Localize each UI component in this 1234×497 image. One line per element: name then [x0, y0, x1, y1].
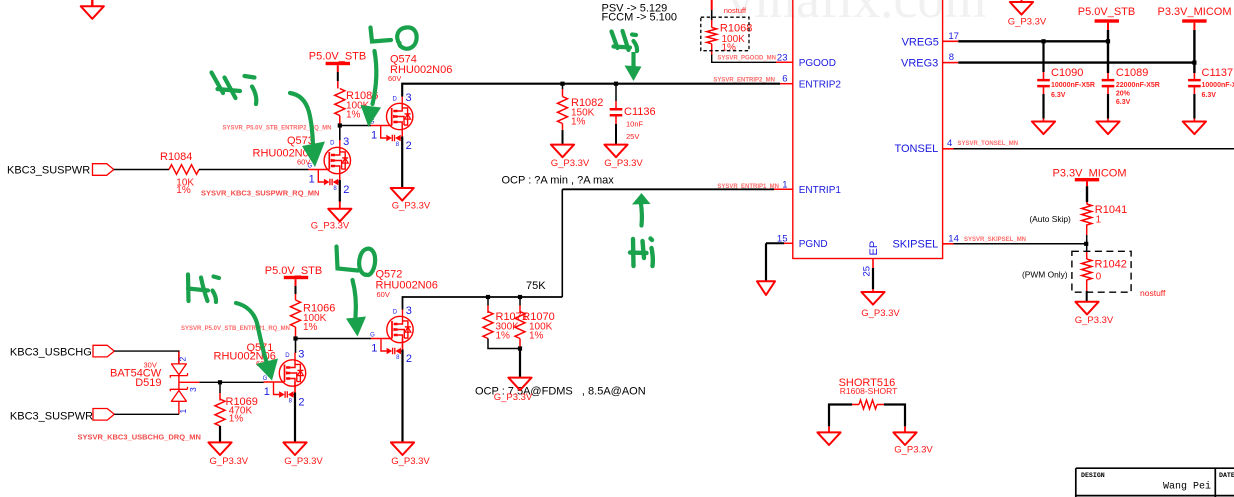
svg-text:4: 4	[947, 138, 952, 149]
wire Q573 source to ground	[339, 180, 341, 202]
svg-text:P5.0V_STB: P5.0V_STB	[309, 50, 366, 62]
wire R1068 to PGOOD pin	[712, 55, 793, 63]
annotation LO (bottom)	[337, 247, 376, 276]
svg-text:25: 25	[862, 266, 873, 277]
node R1086/Q573 drain/Q574 gate	[338, 123, 342, 127]
svg-text:C1137: C1137	[1202, 67, 1234, 79]
svg-text:R1084: R1084	[160, 151, 192, 163]
ground G_P3.3V (R1082)	[551, 145, 590, 169]
svg-text:6.3V: 6.3V	[1116, 99, 1131, 106]
transistor Q572	[370, 268, 438, 365]
svg-text:P5.0V_STB: P5.0V_STB	[1078, 6, 1135, 18]
svg-text:R1608-SHORT: R1608-SHORT	[840, 386, 897, 396]
transistor Q571	[214, 342, 306, 409]
svg-text:SYSVR_P5.0V_STB_ENTRIP1_RQ_MN: SYSVR_P5.0V_STB_ENTRIP1_RQ_MN	[181, 326, 290, 332]
svg-text:0: 0	[1096, 271, 1102, 282]
annotation arrow up to ENTRIP1	[632, 193, 651, 226]
node R1070 tap	[518, 295, 522, 299]
node R1071/R1070 bottoms	[518, 346, 522, 350]
ground (PGND)	[757, 281, 775, 295]
ground (C1089)	[1096, 122, 1119, 135]
IC U-main box	[793, 0, 943, 259]
wire D519 common to gate node	[199, 381, 263, 383]
svg-text:DATE: DATE	[1219, 472, 1234, 479]
annotation arrow LO to Q574 gate	[361, 51, 382, 127]
svg-text:G_P3.3V: G_P3.3V	[551, 158, 590, 169]
dashed box R1068	[701, 17, 749, 51]
ground G_P3.3V (EP)	[861, 292, 900, 319]
svg-text:75K: 75K	[526, 280, 546, 292]
annotation Hi (below ENTRIP1)	[630, 239, 653, 267]
svg-text:DESIGN: DESIGN	[1081, 472, 1105, 479]
node R1066/Q571 drain/Q572 gate	[293, 336, 297, 340]
title block	[1076, 468, 1234, 497]
annotation arrow to Q571 gate	[236, 303, 278, 381]
svg-text:1: 1	[178, 409, 188, 414]
svg-text:6.3V: 6.3V	[1051, 92, 1066, 99]
node P5.0V_STB/VREG5	[1106, 39, 1110, 43]
ground G_P3.3V (top right)	[1008, 0, 1047, 28]
ground (C1090)	[1032, 122, 1055, 135]
svg-text:SYSVR_ENTRIP1_MN: SYSVR_ENTRIP1_MN	[717, 184, 779, 190]
node R1082 tap	[560, 82, 564, 86]
svg-text:17: 17	[948, 31, 959, 42]
svg-text:G_P3.3V: G_P3.3V	[1008, 17, 1047, 28]
svg-text:SYSVR_PGOOD_MN: SYSVR_PGOOD_MN	[717, 56, 776, 62]
wire ENTRIP1 corner down	[561, 189, 563, 297]
ground G_P3.3V (C1136)	[604, 145, 643, 169]
wire Q571 source to ground	[294, 393, 296, 443]
transistor Q574	[370, 54, 453, 152]
svg-text:6: 6	[782, 73, 787, 84]
svg-text:2: 2	[178, 357, 188, 362]
svg-text:KBC3_SUSPWR: KBC3_SUSPWR	[7, 164, 90, 176]
wire EP to ground	[872, 259, 874, 293]
svg-text:(PWM Only): (PWM Only)	[1022, 269, 1068, 279]
svg-text:P3.3V_MICOM: P3.3V_MICOM	[1158, 6, 1232, 18]
svg-text:6.3V: 6.3V	[1202, 92, 1217, 99]
svg-text:G_P3.3V: G_P3.3V	[392, 201, 431, 212]
svg-text:KBC3_SUSPWR: KBC3_SUSPWR	[10, 410, 93, 422]
wire Q572 source to ground	[401, 350, 403, 443]
resistor R1066	[291, 300, 336, 339]
wire ENTRIP2 stub	[780, 83, 793, 85]
capacitor C1090	[1037, 41, 1095, 121]
svg-text:1: 1	[1096, 215, 1102, 226]
wire Q574 drain to ENTRIP2 rail	[402, 84, 780, 97]
svg-text:P5.0V_STB: P5.0V_STB	[265, 265, 322, 277]
svg-text:C1090: C1090	[1051, 67, 1083, 79]
ground G_P3.3V (SHORT516 right)	[893, 432, 933, 455]
svg-text:SYSVR_ENTRIP2_MN: SYSVR_ENTRIP2_MN	[713, 78, 775, 84]
svg-text:ENTRIP2: ENTRIP2	[799, 80, 842, 91]
diode D519 (BAT54CW)	[110, 352, 199, 415]
svg-text:1%: 1%	[346, 110, 361, 121]
svg-text:nostuff: nostuff	[1140, 288, 1166, 298]
resistor R1042 (PWM Only, nostuff)	[1082, 244, 1127, 302]
svg-text:10000nF-X5R: 10000nF-X5R	[1051, 82, 1095, 89]
svg-text:8: 8	[949, 52, 954, 63]
svg-text:G_P3.3V: G_P3.3V	[604, 158, 643, 169]
ground (SHORT516 left)	[817, 432, 840, 445]
ground G_P3.3V (R1069)	[208, 442, 248, 467]
svg-text:1%: 1%	[303, 322, 318, 333]
wire Q572 drain to 75K rail	[403, 297, 563, 310]
svg-text:60V: 60V	[388, 74, 401, 83]
svg-text:10000nF-X5R: 10000nF-X5R	[1202, 82, 1234, 89]
node C1090 tap on VREG5	[1041, 39, 1045, 43]
wire VREG3 rail	[943, 62, 1195, 64]
capacitor C1089	[1102, 67, 1160, 122]
ground (C1137)	[1183, 122, 1206, 135]
svg-text:1%: 1%	[176, 185, 191, 196]
svg-text:60V: 60V	[297, 158, 310, 167]
wire PGOOD net from top	[711, 0, 713, 28]
wire SKIPSEL	[943, 243, 1087, 245]
svg-text:P3.3V_MICOM: P3.3V_MICOM	[1053, 167, 1127, 179]
svg-text:R1068: R1068	[720, 23, 752, 35]
ground G_P3.3V (Q572)	[391, 442, 431, 467]
resistor R1082	[558, 84, 604, 145]
svg-text:G_P3.3V: G_P3.3V	[311, 221, 350, 232]
svg-text:1%: 1%	[529, 331, 544, 342]
svg-text:EP: EP	[868, 241, 880, 256]
wire SUSPWR port to D519	[114, 413, 179, 415]
wire node down to Q573 drain	[339, 126, 341, 141]
svg-text:FCCM -> 5.100: FCCM -> 5.100	[602, 11, 678, 23]
transistor Q573	[253, 135, 351, 196]
wire to ground (R1070/71)	[519, 349, 521, 378]
svg-text:1%: 1%	[229, 413, 244, 424]
power P5.0V_STB (top)	[309, 50, 366, 88]
svg-text:PGOOD: PGOOD	[799, 58, 836, 69]
resistor R1069	[215, 382, 258, 442]
svg-text:VREG5: VREG5	[902, 36, 939, 48]
svg-text:C1136: C1136	[624, 106, 656, 118]
svg-text:3: 3	[188, 387, 198, 392]
resistor R1086	[335, 89, 379, 126]
svg-text:nostuff: nostuff	[724, 6, 747, 15]
svg-text:SYSVR_P5.0V_STB_ENTRIP2_RQ_MN: SYSVR_P5.0V_STB_ENTRIP2_RQ_MN	[222, 125, 331, 131]
svg-text:22000nF-X5R: 22000nF-X5R	[1116, 82, 1160, 89]
svg-text:SYSVR_KBC3_SUSPWR_RQ_MN: SYSVR_KBC3_SUSPWR_RQ_MN	[201, 189, 319, 198]
port KBC3_USBCHG	[10, 345, 114, 358]
svg-text:1: 1	[782, 179, 787, 190]
svg-text:1%: 1%	[496, 331, 511, 342]
svg-text:G_P3.3V: G_P3.3V	[894, 444, 933, 455]
ground G_P3.3V (R1070/71)	[494, 378, 533, 403]
svg-text:G_P3.3V: G_P3.3V	[861, 308, 900, 319]
svg-text:SYSVR_TONSEL_MN: SYSVR_TONSEL_MN	[958, 141, 1019, 147]
svg-text:Wang Pei: Wang Pei	[1163, 481, 1211, 493]
wire R1084 to Q573 gate	[199, 169, 309, 171]
wire Q574 source to ground	[401, 137, 403, 189]
dashed box R1042	[1072, 251, 1131, 292]
power P3.3V_MICOM (SKIPSEL)	[1053, 167, 1127, 204]
annotation LO (top)	[371, 27, 417, 48]
svg-text:14: 14	[948, 233, 959, 244]
wire SHORT516 right	[884, 405, 905, 433]
resistor R1041 (Auto Skip)	[1082, 204, 1128, 244]
text PSV/FCCM	[602, 2, 678, 23]
wire TONSEL	[943, 148, 1234, 150]
wire PGND	[766, 243, 793, 281]
resistor R1071	[483, 297, 528, 349]
capacitor C1137	[1188, 67, 1234, 122]
svg-text:SYSVR_KBC3_USBCHG_DRQ_MN: SYSVR_KBC3_USBCHG_DRQ_MN	[78, 433, 201, 442]
svg-text:vinafix.com: vinafix.com	[727, 0, 986, 29]
svg-text:ENTRIP1: ENTRIP1	[799, 185, 842, 196]
annotation arrow down to ENTRIP2	[625, 52, 642, 81]
power P5.0V_STB (bottom)	[265, 265, 322, 300]
resistor R1068 (nostuff)	[707, 6, 753, 54]
ground G_P3.3V (Q571)	[283, 442, 323, 467]
svg-text:60V: 60V	[377, 290, 390, 299]
svg-text:SKIPSEL: SKIPSEL	[892, 239, 938, 251]
svg-text:C1089: C1089	[1116, 67, 1148, 79]
svg-text:D519: D519	[135, 377, 161, 389]
ground G_P3.3V (Q574)	[391, 188, 431, 212]
svg-text:SYSVR_SKIPSEL_MN: SYSVR_SKIPSEL_MN	[964, 237, 1026, 243]
wire port to R1084	[114, 169, 169, 171]
wire VREG5 rail	[943, 40, 1108, 42]
wire USBCHG port to D519	[114, 351, 179, 364]
svg-text:G_P3.3V: G_P3.3V	[210, 456, 249, 467]
wire node to Q574 gate	[340, 125, 371, 127]
resistor SHORT516	[839, 377, 898, 409]
wire node to Q572 gate	[296, 338, 372, 340]
annotation arrow LO to Q572 gate	[346, 280, 366, 337]
svg-text:KBC3_USBCHG: KBC3_USBCHG	[10, 347, 92, 359]
svg-text:VREG3: VREG3	[901, 58, 938, 70]
svg-text:25V: 25V	[626, 132, 639, 141]
port KBC3_SUSPWR (bottom)	[10, 409, 114, 423]
wire node down to Q571 drain	[295, 339, 297, 354]
svg-text:PGND: PGND	[799, 239, 828, 250]
resistor R1084	[160, 151, 199, 196]
svg-text:10nF: 10nF	[626, 120, 644, 129]
svg-text:Q572: Q572	[376, 268, 403, 280]
annotation arrow to Q573 gate	[290, 93, 325, 167]
port KBC3_SUSPWR (top)	[7, 164, 114, 177]
wire SHORT516 left	[829, 405, 852, 433]
svg-text:G_P3.3V: G_P3.3V	[494, 392, 533, 403]
capacitor C1136	[610, 84, 656, 145]
svg-text:15: 15	[777, 233, 788, 244]
svg-text:G_P3.3V: G_P3.3V	[1075, 315, 1114, 326]
ground G_P3.3V (R1042)	[1075, 302, 1114, 326]
ground G_P3.3V (Q573)	[311, 209, 352, 232]
power P5.0V_STB (right)	[1078, 6, 1135, 79]
svg-text:(Auto Skip): (Auto Skip)	[1029, 214, 1071, 224]
svg-text:1%: 1%	[722, 42, 737, 53]
svg-text:23: 23	[777, 52, 788, 63]
svg-text:1%: 1%	[571, 117, 586, 128]
svg-text:OCP : ?A min , ?A max: OCP : ?A min , ?A max	[502, 175, 615, 187]
svg-text:20%: 20%	[1116, 90, 1131, 97]
annotation Hi (top-left)	[212, 73, 257, 105]
node D519/R1069/Q571 gate	[218, 380, 222, 384]
wire ENTRIP1	[562, 188, 793, 190]
node R1071 tap	[486, 295, 490, 299]
node SKIPSEL junction	[1084, 242, 1088, 246]
svg-text:R1042: R1042	[1095, 258, 1127, 270]
svg-text:G_P3.3V: G_P3.3V	[391, 456, 430, 467]
power P3.3V_MICOM (right)	[1158, 6, 1232, 79]
resistor R1070	[515, 297, 555, 349]
ground (top-left stub)	[81, 0, 104, 19]
node C1136 tap	[614, 82, 618, 86]
annotation Hi (mid)	[612, 31, 638, 51]
node P3.3V_MICOM/VREG3	[1192, 61, 1196, 65]
svg-text:TONSEL: TONSEL	[894, 143, 938, 155]
annotation Hi (bottom-left)	[188, 275, 219, 303]
svg-text:G_P3.3V: G_P3.3V	[284, 456, 323, 467]
